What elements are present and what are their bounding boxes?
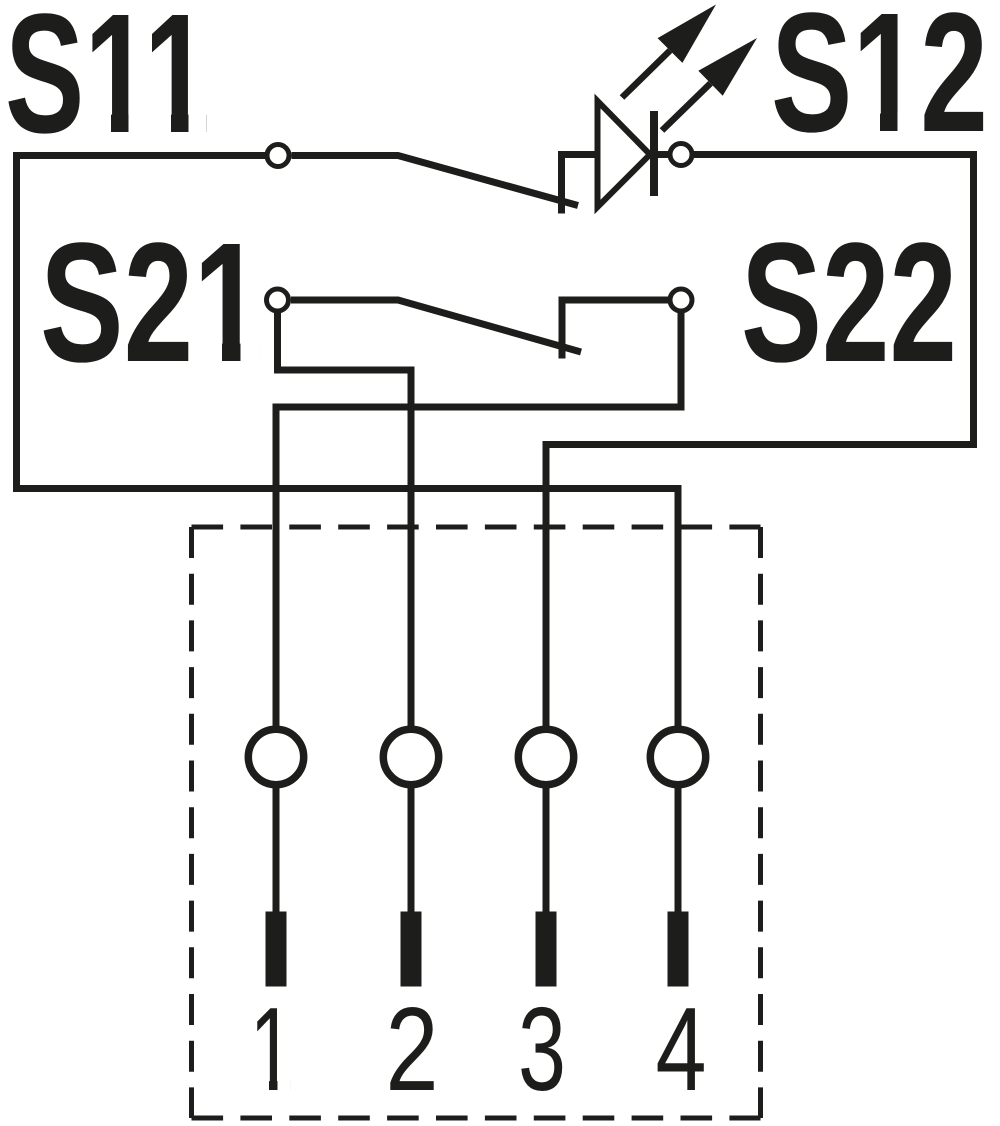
pin 4 blade [668, 912, 689, 987]
svg-text:2: 2 [386, 983, 439, 1116]
contact circle pin 4 [650, 729, 705, 784]
pin 3 blade [536, 912, 557, 987]
pin 1 blade [266, 912, 287, 987]
LED D1 cathode bar [650, 111, 658, 196]
label S21 [40, 208, 263, 398]
terminal circle S22 [670, 289, 692, 311]
svg-text:S22: S22 [741, 208, 957, 398]
wire pin 4 lead [675, 787, 682, 912]
terminal circle S12 [670, 144, 692, 166]
svg-text:S11: S11 [5, 0, 210, 169]
contact circle pin 3 [518, 729, 573, 784]
terminal circle S11 [267, 145, 289, 167]
svg-text:3: 3 [518, 983, 566, 1116]
switch S2 fixed contact and wire to S22 terminal [562, 300, 668, 359]
LED light arrow 1 [620, 5, 716, 100]
contact circle pin 1 [248, 729, 303, 784]
contact circle pin 2 [383, 729, 438, 784]
wire pin 3 lead [543, 787, 550, 912]
LED light arrow 2 [660, 38, 757, 133]
pin 2 blade [401, 912, 422, 987]
wire pin 2 lead [408, 787, 415, 912]
pin number 1 [250, 983, 295, 1116]
svg-text:4: 4 [656, 983, 707, 1116]
svg-text:S12: S12 [771, 0, 988, 168]
label S12 [771, 0, 988, 168]
connector housing (dashed box) [192, 527, 761, 1118]
label S11 [5, 0, 210, 169]
wire S11 net: terminal to left edge, down, bottom run, down to pin 4 [17, 156, 679, 729]
wire S12 net: cathode to right edge, down, left run, down to pin 3 [546, 155, 974, 729]
wire S21 net: down from terminal, jog right, down to pin 2 [278, 310, 412, 728]
switch S2 moving contact (arm from S21 terminal) [291, 300, 581, 352]
wire pin 1 lead [273, 787, 280, 912]
LED D1 triangle (anode) [598, 101, 651, 207]
svg-text:1: 1 [250, 983, 295, 1116]
switch S1 moving contact (arm from S11 terminal) [292, 156, 579, 206]
wire S22 net: down from terminal, jog left, down to pin 1 [276, 310, 681, 728]
terminal circle S21 [267, 289, 289, 311]
svg-text:S21: S21 [40, 208, 263, 398]
switch S1 fixed contact and LED anode stub [562, 155, 601, 214]
